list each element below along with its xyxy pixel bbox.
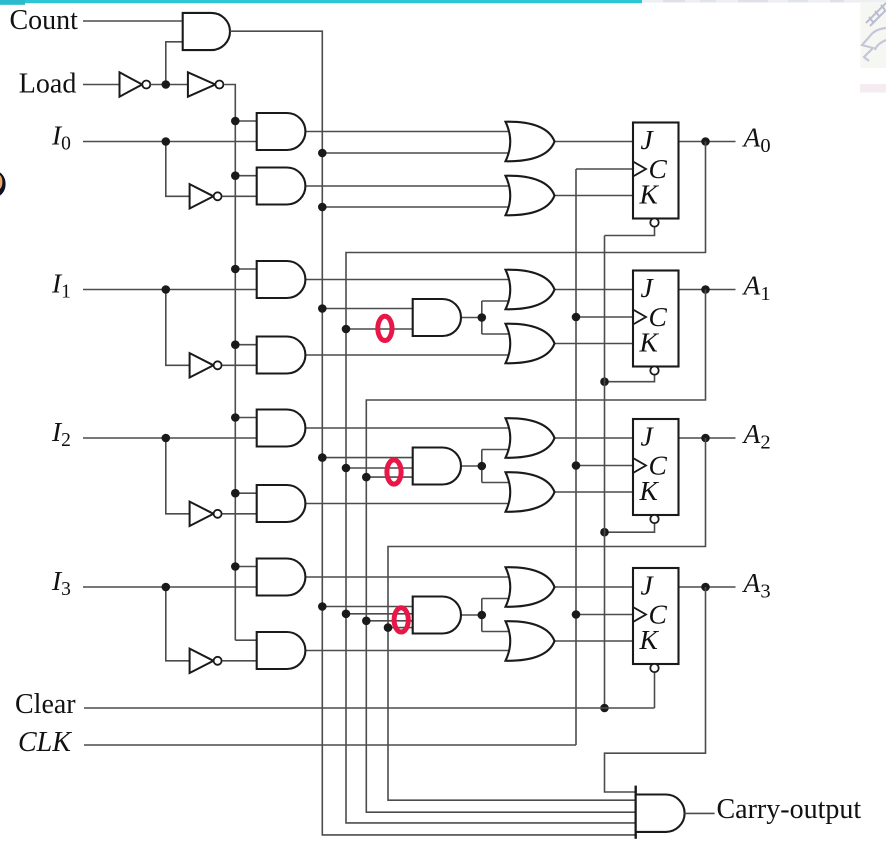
node clock bus tap (572, 610, 581, 619)
decorative corner art squiggle (861, 3, 886, 68)
wire OR1 output to J1 (555, 289, 634, 291)
node I3 junction (162, 583, 171, 592)
node T3 input tap 2 (342, 610, 351, 619)
wire T3 input 2 (346, 613, 413, 615)
svg-text:I2: I2 (51, 416, 71, 451)
clear bubble of FF2 (650, 515, 658, 523)
wire A1 output (679, 289, 736, 291)
svg-text:A0: A0 (742, 122, 771, 158)
node T1 input tap 2 (342, 325, 351, 334)
node T3 input tap 3 (362, 617, 371, 626)
wire inverter to AND_B2 (223, 513, 257, 515)
node Load tap B1 (231, 340, 240, 349)
AND gate G1 Count AND NOT Load (183, 13, 230, 50)
wire OR2 output to K2 (555, 491, 634, 493)
wire Clear line (84, 707, 655, 709)
wire AND_A1 to OR gate (305, 279, 517, 281)
annotation red zero mark stage 1 (378, 316, 392, 340)
node Load tap A2 (231, 413, 240, 422)
clear bubble of FF0 (650, 218, 658, 226)
clock wedge of FF2 (633, 458, 646, 473)
node Load tap A1 (231, 265, 240, 274)
inverter NI2 on I2 (190, 502, 214, 526)
wire T3 input 1 (322, 606, 412, 608)
svg-text:A1: A1 (742, 270, 771, 306)
wire clock to C2 (576, 465, 633, 467)
wire input I1 (83, 289, 257, 291)
node T2 output (478, 462, 487, 471)
wire inverter N1 to inverter N2 (150, 84, 188, 86)
wire input I0 (83, 141, 257, 143)
svg-text:CLK: CLK (18, 727, 72, 758)
svg-text:J: J (641, 570, 655, 601)
OR gate OK0 to K input (506, 176, 555, 216)
node I1 junction (162, 285, 171, 294)
wire OR2 output to K0 (555, 195, 634, 197)
clock wedge of FF0 (633, 162, 646, 177)
node T3 output (478, 611, 487, 620)
wire A2 feedback (388, 438, 706, 800)
node clear bus join 2 (600, 528, 609, 537)
node I0 junction (162, 137, 171, 146)
node clock bus tap (572, 461, 581, 470)
node A3 output junction (701, 583, 710, 592)
svg-text:Clear: Clear (15, 689, 76, 720)
svg-text:I1: I1 (51, 268, 71, 303)
wire inverter to AND_B1 (223, 364, 257, 366)
flip-flop FF0 (633, 123, 679, 219)
node clock bus tap (572, 313, 581, 322)
wire clock to C1 (576, 316, 633, 318)
clock wedge of FF3 (633, 607, 646, 622)
wire Load bus tap to AND_A2 (235, 417, 256, 419)
node T3 input tap 1 (318, 602, 327, 611)
node Load tap A0 (231, 117, 240, 126)
wire T1 output jog to OR gates (461, 317, 482, 319)
node Load-inverted junction (162, 80, 171, 89)
OR gate OK1 to K input (506, 324, 555, 364)
inverter NI3 on I3 (190, 649, 214, 673)
OR gate OJ1 to J input (506, 270, 555, 310)
annotation red zero mark stage 3 (394, 608, 408, 632)
AND gate A2 (Load AND I2) (257, 410, 306, 447)
flip-flop FF1 (633, 271, 679, 367)
wire T3 input 3 (366, 620, 412, 622)
svg-text:A2: A2 (742, 418, 771, 454)
wire clear bus (604, 236, 606, 709)
node A2 output junction (701, 434, 710, 443)
wire clock to C3 (576, 614, 633, 616)
AND gate B3 (Load AND NOT I3) (257, 632, 306, 669)
wire Load bus tap to AND_A3 (235, 566, 256, 568)
svg-text:Count: Count (10, 5, 79, 36)
inverter N2 re-buffering Load (188, 72, 215, 96)
node T2 input tap 2 (342, 464, 351, 473)
svg-text:K: K (639, 624, 660, 655)
wire AND_B2 to OR gate (305, 503, 517, 505)
svg-text:A3: A3 (742, 567, 771, 603)
wire T2 output jog to OR gates (461, 465, 482, 467)
wire T2 input 1 (322, 457, 412, 459)
wire clock bus (575, 169, 577, 745)
AND gate A0 (Load AND I0) (257, 113, 306, 150)
wire A3 feedback (605, 587, 706, 792)
node count tap OR2 (318, 203, 327, 212)
wire Load bus tap to AND_A0 (235, 120, 256, 122)
inverter NI1 on I1 (190, 353, 214, 377)
wire OR1 output to J0 (555, 141, 634, 143)
decorative cyan header bar (0, 0, 642, 3)
wire count-enable tap to OR2 of stage 0 (322, 206, 517, 208)
flip-flop FF2 (633, 419, 679, 515)
wire OR2 output to K3 (555, 640, 634, 642)
wire inverter to AND_B3 (223, 660, 257, 662)
wire AND_A0 to OR gate (305, 131, 517, 133)
wire I2 branch to inverter (166, 438, 190, 514)
node I2 junction (162, 434, 171, 443)
svg-text:J: J (641, 124, 655, 155)
svg-text:I0: I0 (51, 120, 71, 155)
svg-text:K: K (639, 179, 660, 210)
AND gate B2 (Load AND NOT I2) (257, 485, 306, 522)
clear bubble of FF3 (650, 664, 658, 672)
inverter N1 on Load (120, 72, 143, 96)
OR gate OJ3 to J input (506, 567, 555, 607)
wire A0 feedback (346, 142, 706, 823)
wire Load bus tap to AND_A1 (235, 268, 256, 270)
svg-text:Carry-output: Carry-output (717, 794, 862, 825)
node count tap OR1 (318, 149, 327, 158)
wire OR2 output to K1 (555, 343, 634, 345)
AND gate B0 (Load AND NOT I0) (257, 168, 306, 205)
OR gate OJ2 to J input (506, 418, 555, 458)
decorative faint header remnant strip (642, 0, 886, 3)
wire AND_B0 to OR gate (305, 185, 517, 187)
AND gate G2 carry output (635, 786, 637, 839)
svg-text:K: K (639, 475, 660, 506)
wire count-enable from G1 down bus (230, 31, 636, 835)
wire T1 input 1 (322, 308, 412, 310)
wire A2 output (679, 437, 736, 439)
AND gate A1 (Load AND I1) (257, 261, 306, 298)
AND gate T3 (count chain) (413, 597, 461, 634)
wire T2 input 2 (346, 467, 413, 469)
wire I1 branch to inverter (166, 290, 190, 366)
node A0 output junction (701, 137, 710, 146)
decorative left-edge chapter logo fragment (0, 171, 6, 196)
node A1 output junction (701, 285, 710, 294)
OR gate OK3 to K input (506, 621, 555, 661)
wire inverter to AND_B0 (223, 195, 257, 197)
OR gate OJ0 to J input (506, 122, 555, 162)
wire FF1 clear bubble to clear bus (605, 375, 655, 382)
svg-text:J: J (641, 272, 655, 303)
wire OR1 output to J3 (555, 586, 634, 588)
wire A0 output (679, 141, 736, 143)
wire A1 feedback (366, 290, 705, 813)
wire Load bus tap to AND_B1 (235, 344, 256, 346)
wire AND_B3 to OR gate (305, 650, 517, 652)
wire count-enable tap to OR1 of stage 0 (322, 152, 517, 154)
wire input I2 (83, 437, 257, 439)
wire Load to inverter (83, 84, 120, 86)
wire T2 input 3 (366, 476, 412, 478)
wire T3 input 4 (388, 627, 413, 629)
node T1 input tap 1 (318, 304, 327, 313)
node Load tap A3 (231, 562, 240, 571)
clock wedge of FF1 (633, 310, 646, 325)
wire Load bus tap to AND_B0 (235, 175, 256, 177)
node T2 input tap 1 (318, 453, 327, 462)
node T3 input tap 4 (384, 623, 393, 632)
OR gate OK2 to K input (506, 472, 555, 512)
wire FF3 clear bubble down to Clear line (654, 672, 656, 708)
node Load tap B0 (231, 171, 240, 180)
wire AND_B1 to OR gate (305, 354, 517, 356)
AND gate B1 (Load AND NOT I1) (257, 337, 306, 374)
wire Load bus tap to AND_B3 (235, 639, 256, 641)
wire Load bus tap to AND_B2 (235, 492, 256, 494)
node T1 output (478, 313, 487, 322)
wire input I3 (83, 586, 257, 588)
clear bubble of FF1 (650, 366, 658, 374)
wire Count to AND gate (83, 20, 183, 22)
AND gate T2 (count chain) (413, 448, 461, 485)
svg-text:I3: I3 (51, 565, 71, 600)
AND gate T1 (count chain) (413, 299, 461, 336)
wire I0 branch to inverter (166, 142, 190, 197)
node T2 input tap 3 (362, 473, 371, 482)
svg-text:J: J (641, 421, 655, 452)
wire I3 branch to inverter (166, 587, 190, 661)
wire AND_A2 to OR gate (305, 427, 517, 429)
annotation red zero mark stage 2 (387, 460, 401, 484)
wire T3 output jog to OR gates (461, 614, 482, 616)
wire OR1 output to J2 (555, 437, 634, 439)
wire AND_A3 to OR gate (305, 576, 517, 578)
wire T1 input 2 (346, 328, 413, 330)
inverter NI0 on I0 (190, 184, 214, 208)
wire clock to C0 (576, 168, 633, 170)
wire Load bus from N2 (224, 85, 235, 641)
wire Load-inverted branch up to count AND (166, 42, 183, 85)
wire FF2 clear bubble to clear bus (605, 523, 655, 532)
node clear bus join 1 (600, 377, 609, 386)
node clear bus to Clear line (600, 704, 609, 713)
svg-text:K: K (639, 327, 660, 358)
wire FF0 clear bubble to clear bus (605, 227, 655, 236)
flip-flop FF3 (633, 568, 679, 664)
wire carry output (685, 812, 715, 814)
node Load tap B2 (231, 489, 240, 498)
svg-text:Load: Load (19, 68, 77, 99)
AND gate A3 (Load AND I3) (257, 559, 306, 596)
wire CLK line (84, 744, 576, 746)
wire A3 output (679, 586, 736, 588)
